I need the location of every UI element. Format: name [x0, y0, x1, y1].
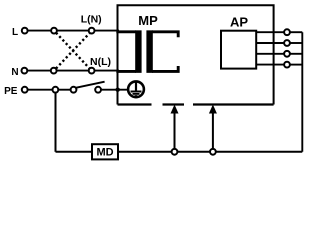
svg-text:N(L): N(L) [90, 56, 111, 68]
svg-text:PE: PE [4, 86, 18, 97]
svg-text:MP: MP [138, 13, 158, 28]
svg-text:MD: MD [96, 146, 113, 158]
svg-text:AP: AP [230, 14, 248, 29]
svg-text:L(N): L(N) [81, 14, 102, 26]
svg-text:N: N [11, 67, 18, 78]
svg-text:L: L [12, 27, 18, 38]
